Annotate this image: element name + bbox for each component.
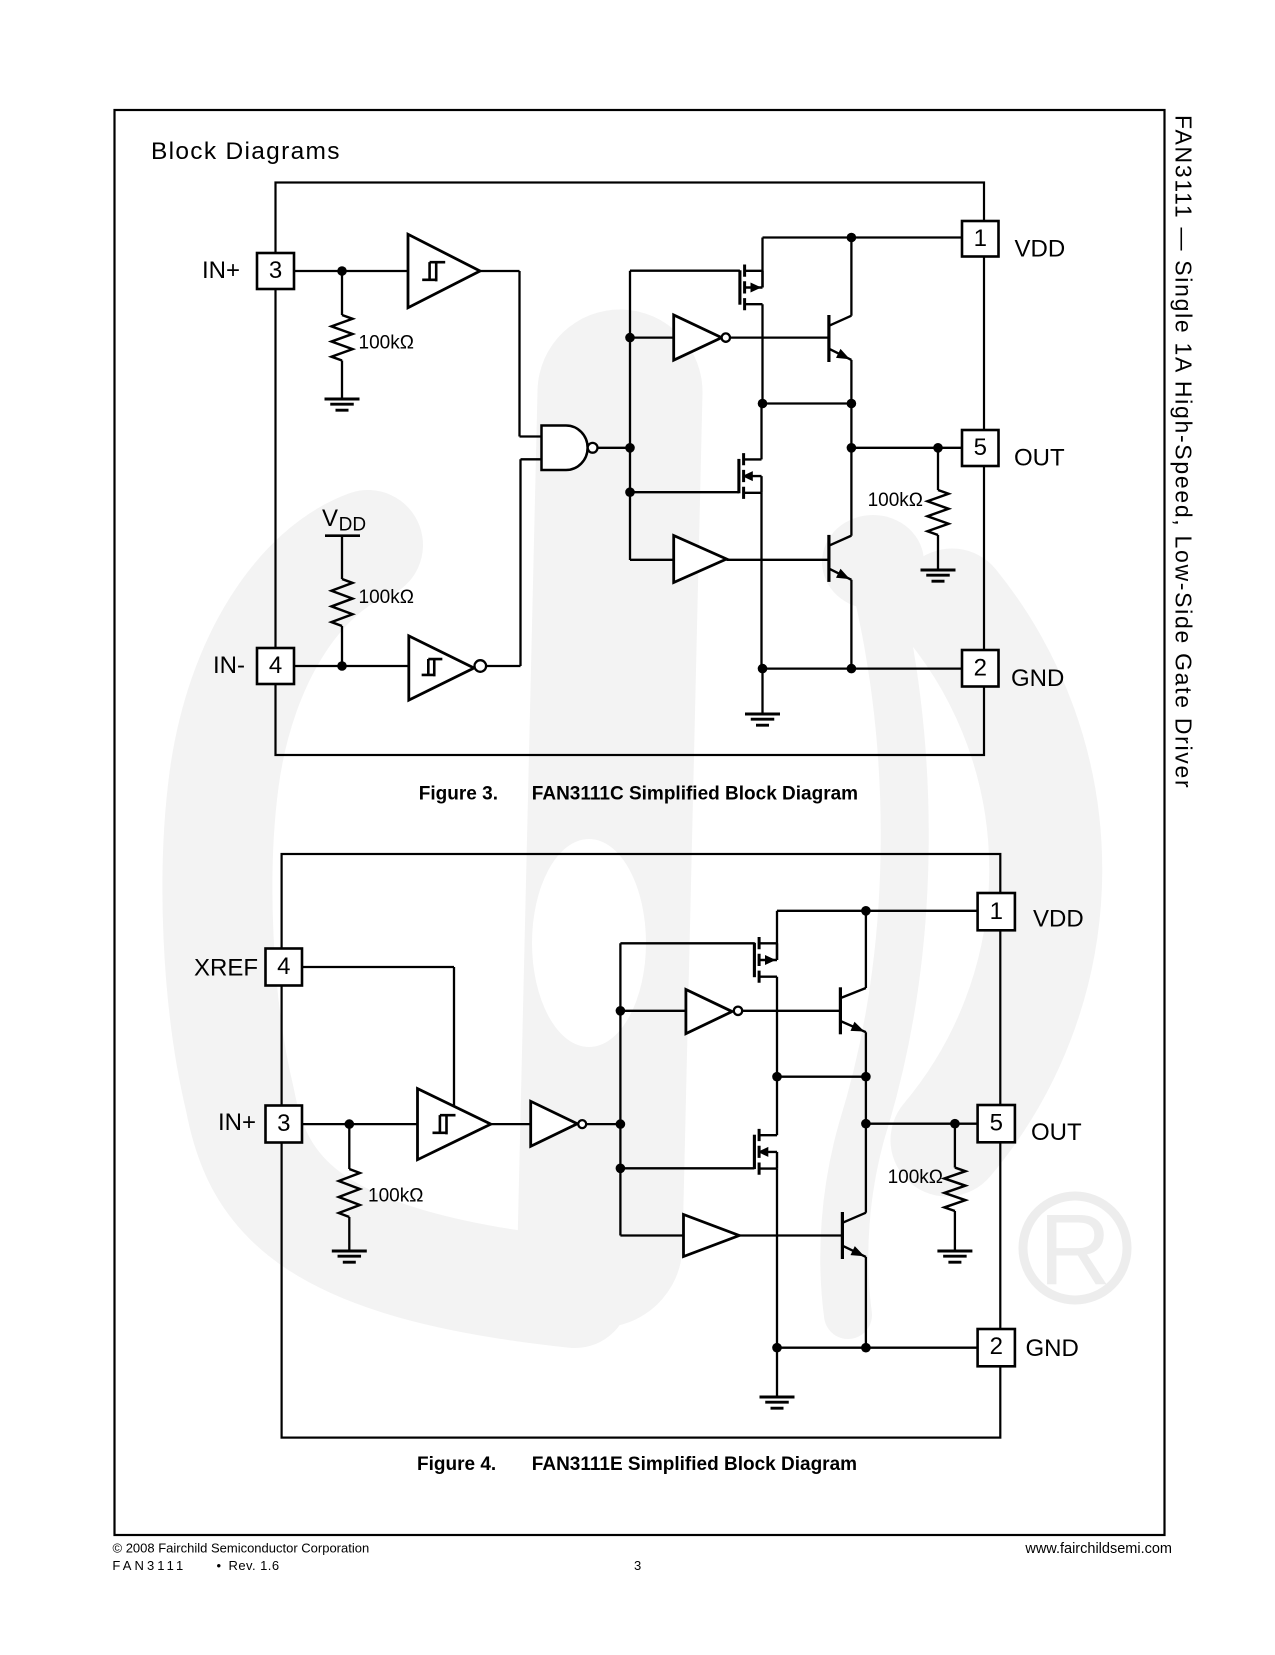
wire U8 output to Q3 base [742, 1010, 840, 1012]
transistor M3 PMOS pullup fig4 [754, 937, 777, 983]
node phase right fig4 [861, 1072, 871, 1082]
svg-text:5: 5 [990, 1110, 1003, 1137]
buffer U5 [674, 536, 727, 583]
svg-text:2: 2 [974, 655, 987, 682]
resistor R5 100k on OUT fig4 [944, 1124, 965, 1251]
svg-text:FAN3111C Simplified Block Diag: FAN3111C Simplified Block Diagram [532, 784, 858, 805]
resistor R1 100k IN+ pulldown [332, 271, 353, 399]
wire A1 output to NAND input A [480, 271, 542, 437]
node NAND out on bus [625, 443, 635, 453]
pin 2 GND [962, 650, 1064, 692]
node GND rail left fig4 [772, 1343, 782, 1353]
transistor Q4 NPN pulldown fig4 [842, 1212, 866, 1259]
svg-text:OUT: OUT [1014, 445, 1065, 472]
schmitt buffer A3 [418, 1089, 491, 1160]
svg-text:V: V [322, 505, 338, 532]
resistor R4 100k IN+ pulldown fig4 [339, 1124, 360, 1251]
svg-text:FAN3111 — Single 1A High-Speed: FAN3111 — Single 1A High-Speed, Low-Side… [1171, 115, 1197, 789]
ground symbol fig4 main [760, 1348, 795, 1409]
node OUT at R3 [933, 443, 943, 453]
wire U9 output to Q4 base [739, 1234, 842, 1236]
value label R4 100k [368, 1186, 423, 1207]
svg-text:100kΩ: 100kΩ [868, 490, 923, 511]
svg-text:2: 2 [990, 1333, 1003, 1360]
wire Q3 collector to VDD rail fig4 [865, 911, 867, 988]
svg-text:IN+: IN+ [202, 257, 240, 284]
wire bus to buffer U9 [620, 1234, 683, 1236]
inverter U8 [686, 990, 742, 1034]
ground below R4 [332, 1251, 367, 1262]
wire A2 output to NAND input B [486, 459, 541, 666]
wire pin3 to junction [294, 270, 342, 272]
drive bus vertical fig4 [619, 943, 621, 1235]
wire M2 drain up [760, 404, 762, 460]
svg-text:© 2008 Fairchild Semiconductor: © 2008 Fairchild Semiconductor Corporati… [113, 1540, 370, 1555]
wire pin4 to junction [294, 665, 342, 667]
title Block Diagrams [151, 138, 341, 165]
transistor M1 PMOS pullup [740, 265, 763, 311]
svg-text:DD: DD [339, 515, 366, 536]
pin 3 IN+ fig4 [218, 1106, 302, 1143]
svg-text:4: 4 [269, 652, 282, 679]
pin 4 XREF [194, 949, 302, 986]
wire M1 source down to out node [761, 304, 763, 403]
resistor R3 100k on OUT [928, 448, 949, 570]
svg-text:GND: GND [1026, 1335, 1079, 1362]
page border [115, 110, 1165, 1535]
footer [112, 1540, 1172, 1573]
schmitt buffer A1 [408, 234, 480, 307]
value label R2 100k [359, 587, 414, 608]
wire A3 to inverter U7 [491, 1123, 531, 1125]
wire U5 output to Q2 base [727, 559, 829, 561]
wire junction to schmitt A3 [349, 1123, 417, 1125]
pin 5 OUT fig4 [978, 1105, 1082, 1146]
node GND rail left [758, 664, 768, 674]
wire M4 drain up fig4 [776, 1077, 778, 1136]
wire M4 source down to GND rail fig4 [776, 1169, 778, 1348]
svg-text:4: 4 [277, 953, 290, 980]
node GND rail Q2 [847, 664, 857, 674]
node GND rail Q4 fig4 [861, 1343, 871, 1353]
wire phase node horizontal [763, 402, 852, 404]
wire junction to schmitt A1 [342, 270, 408, 272]
pin 5 OUT [962, 430, 1065, 472]
wire Q2 emitter to GND rail [850, 580, 852, 669]
svg-text:Figure 4.: Figure 4. [417, 1454, 496, 1475]
node VDD rail junction fig4 [861, 906, 871, 916]
pin 1 VDD [962, 221, 1065, 263]
pin 3 IN+ [202, 253, 294, 289]
caption figure 3 [419, 784, 858, 805]
transistor Q2 NPN pulldown [829, 535, 852, 582]
transistor Q1 NPN pullup [829, 315, 852, 362]
power VDD symbol [322, 505, 366, 579]
ground below R5 [937, 1251, 972, 1262]
node IN- junction [337, 661, 347, 671]
OUT wire fig4 [866, 1123, 978, 1125]
svg-text:100kΩ: 100kΩ [359, 333, 414, 354]
ground symbol fig3 main [745, 669, 780, 726]
node IN+ junction [337, 266, 347, 276]
node OUT left [847, 443, 857, 453]
transistor M2 NMOS pulldown [739, 453, 762, 499]
wire Q3 emitter / Q4 collector vertical fig4 [865, 1032, 867, 1213]
node OUT at R5 [950, 1119, 960, 1129]
svg-text:FAN3111E Simplified Block Diag: FAN3111E Simplified Block Diagram [532, 1454, 857, 1475]
wire M1 drain to VDD rail [761, 238, 763, 288]
value label R1 100k [359, 333, 414, 354]
wire bus to PMOS M1 gate [630, 270, 740, 272]
value label R5 100k [888, 1167, 943, 1188]
node phase left [758, 399, 768, 409]
wire bus to buffer U5 [630, 559, 674, 561]
wire bus to NMOS M4 gate [620, 1167, 754, 1169]
node bus to U4 [625, 333, 635, 343]
pin 4 IN- [213, 648, 294, 684]
wire bus to inverter U4 [630, 336, 674, 338]
OUT wire fig3 [851, 447, 962, 449]
svg-text:100kΩ: 100kΩ [368, 1186, 423, 1207]
buffer U9 [684, 1215, 740, 1257]
Figure 3: FAN3111C block diagram border [276, 183, 985, 756]
value label R3 100k [868, 490, 923, 511]
wire Q1 collector to VDD rail [850, 238, 852, 316]
node OUT left fig4 [861, 1119, 871, 1129]
sidebar vertical title [1171, 115, 1197, 789]
wire junction to schmitt inverter A2 [342, 665, 409, 667]
svg-text:R: R [1039, 1194, 1111, 1306]
Figure 4: FAN3111E block diagram border [282, 854, 1001, 1438]
wire M3 source down fig4 [776, 977, 778, 1077]
svg-text:5: 5 [974, 434, 987, 461]
svg-text:3: 3 [269, 257, 282, 284]
pin 1 VDD fig4 [978, 893, 1084, 933]
wire Q1 emitter / Q2 collector vertical [850, 360, 852, 536]
node phase left fig4 [772, 1072, 782, 1082]
NAND gate U3 [542, 426, 598, 471]
wire bus to inverter U8 [620, 1010, 685, 1012]
inverter U7 [531, 1101, 587, 1146]
node U7 out on bus [616, 1119, 626, 1129]
svg-text:100kΩ: 100kΩ [359, 587, 414, 608]
ground below R3 [921, 570, 956, 581]
svg-text:3: 3 [634, 1558, 641, 1573]
svg-text:IN+: IN+ [218, 1109, 256, 1136]
svg-text:3: 3 [277, 1110, 290, 1137]
wire NAND output to bus [597, 447, 630, 449]
GND rail fig4 [777, 1347, 978, 1349]
GND rail fig3 [763, 667, 963, 669]
wire bus to NMOS M2 gate [630, 491, 739, 493]
node IN+ junction fig4 [345, 1119, 355, 1129]
ground below R1 [325, 399, 360, 410]
svg-text:1: 1 [990, 898, 1003, 925]
wire bus to PMOS M3 gate [620, 942, 754, 944]
wire XREF to schmitt A3 top [302, 967, 454, 1107]
svg-text:Block Diagrams: Block Diagrams [151, 138, 341, 165]
wire M2 source down to GND rail [760, 493, 762, 669]
svg-text:VDD: VDD [1033, 906, 1084, 933]
wire U4 output to Q1 base [731, 336, 829, 338]
node phase right [847, 399, 857, 409]
svg-text:www.fairchildsemi.com: www.fairchildsemi.com [1024, 1541, 1172, 1557]
transistor M4 NMOS pulldown fig4 [754, 1129, 777, 1175]
schmitt inverter A2 [409, 636, 486, 700]
transistor Q3 NPN pullup fig4 [840, 987, 866, 1034]
VDD rail fig4 [777, 910, 978, 912]
svg-text:1: 1 [974, 225, 987, 252]
wire U7 output to bus fig4 [586, 1123, 620, 1125]
node bus to M2 gate [625, 487, 635, 497]
node VDD rail junction [847, 233, 857, 243]
pin 2 GND fig4 [978, 1329, 1079, 1366]
svg-text:VDD: VDD [1015, 236, 1066, 263]
wire phase node horizontal fig4 [777, 1076, 866, 1078]
svg-text:XREF: XREF [194, 955, 258, 982]
svg-text:OUT: OUT [1031, 1119, 1082, 1146]
svg-text:Figure 3.: Figure 3. [419, 784, 498, 805]
svg-text:GND: GND [1011, 665, 1064, 692]
wire M3 drain to VDD rail fig4 [776, 911, 778, 960]
node bus to M4 gate [616, 1164, 626, 1174]
drive bus vertical [629, 271, 631, 560]
node bus to U8 [616, 1006, 626, 1016]
wire Q4 emitter to GND rail fig4 [865, 1257, 867, 1348]
svg-text:IN-: IN- [213, 652, 245, 679]
svg-text:100kΩ: 100kΩ [888, 1167, 943, 1188]
caption figure 4 [417, 1454, 857, 1475]
resistor R2 100k IN- pullup [332, 579, 353, 666]
wire pin3 to junction fig4 [302, 1123, 349, 1125]
VDD rail fig3 [763, 236, 963, 238]
inverter U4 [674, 315, 730, 360]
